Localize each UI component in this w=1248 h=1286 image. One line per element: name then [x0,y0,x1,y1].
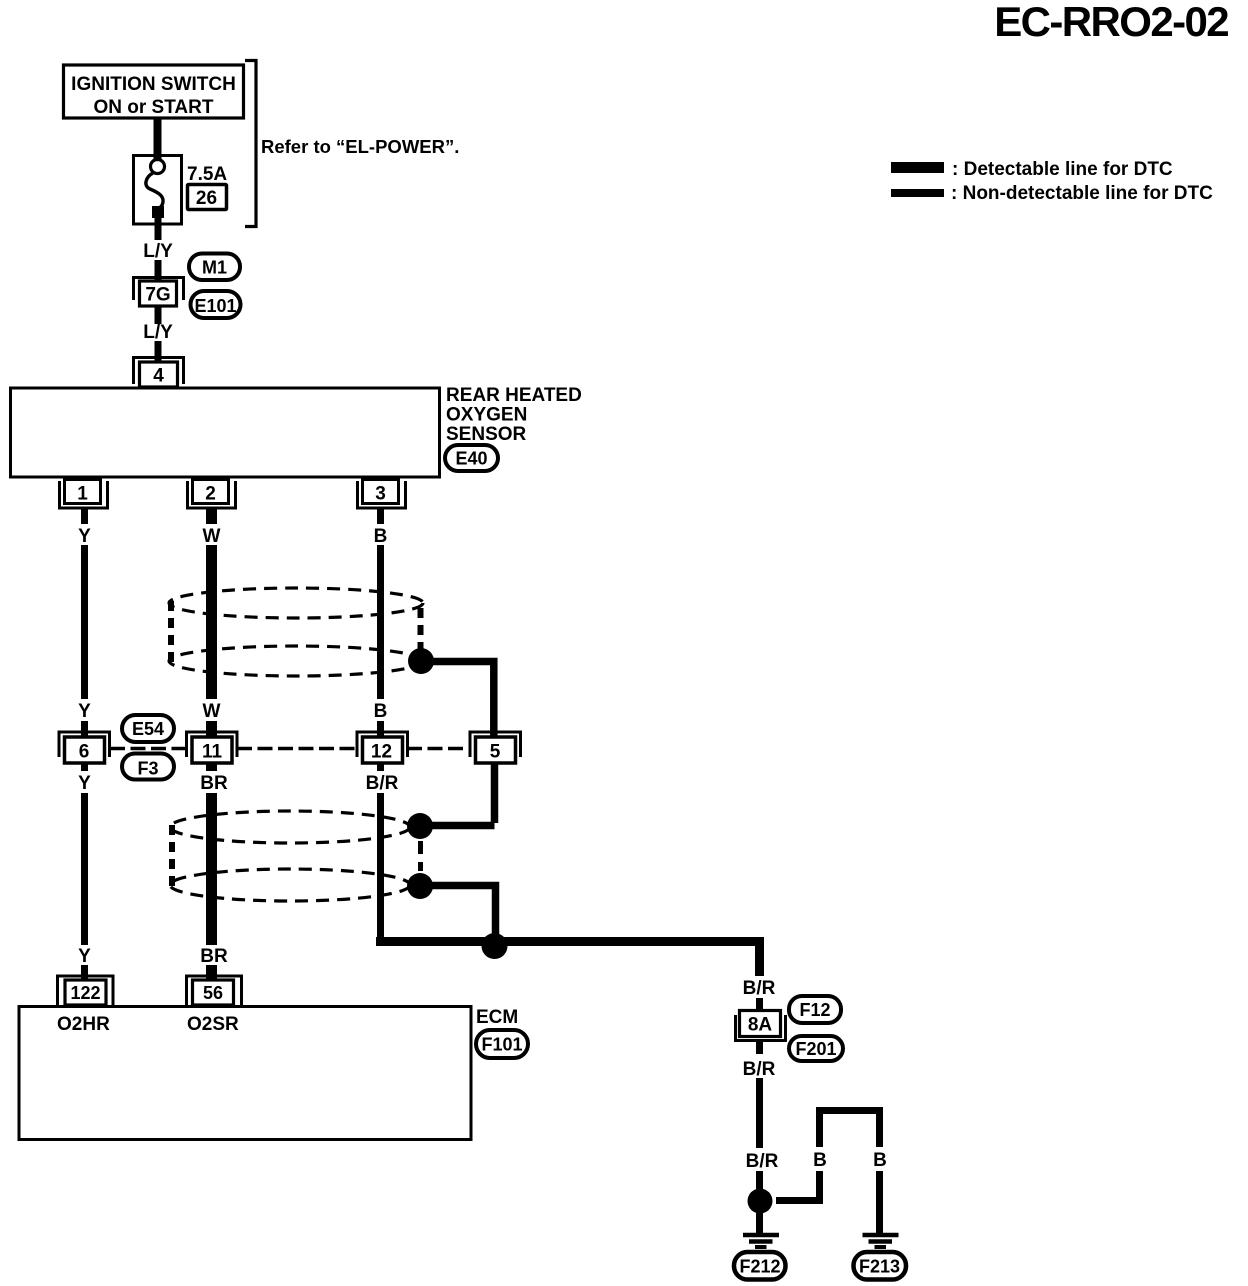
svg-text:B/R: B/R [746,1151,779,1172]
svg-text:ON or START: ON or START [94,97,214,118]
svg-text:E54: E54 [132,719,164,739]
svg-text:F12: F12 [799,1000,830,1020]
svg-text:F213: F213 [859,1257,900,1277]
svg-text:3: 3 [375,484,386,505]
svg-text:BR: BR [200,773,228,794]
svg-text:L/Y: L/Y [143,322,173,343]
svg-text:SENSOR: SENSOR [446,424,527,445]
svg-text:B: B [374,526,388,547]
svg-text:F101: F101 [481,1035,522,1055]
svg-text:E101: E101 [194,296,236,316]
svg-text:B: B [873,1150,887,1171]
svg-text:REAR HEATED: REAR HEATED [446,385,582,406]
svg-text:F212: F212 [739,1257,780,1277]
svg-text:4: 4 [153,366,164,387]
svg-text:Y: Y [78,773,91,794]
svg-text:5: 5 [490,742,501,763]
svg-text:F201: F201 [795,1039,836,1059]
svg-text:W: W [203,701,221,722]
svg-text:B/R: B/R [366,773,399,794]
svg-text:IGNITION SWITCH: IGNITION SWITCH [71,74,236,95]
svg-text:1: 1 [77,484,88,505]
svg-text:12: 12 [371,742,392,763]
svg-text:EC-RRO2-02: EC-RRO2-02 [994,0,1228,45]
svg-text:11: 11 [202,742,223,763]
svg-text:7G: 7G [145,285,170,306]
svg-text:OXYGEN: OXYGEN [446,405,527,426]
svg-text:O2HR: O2HR [57,1014,110,1035]
svg-text:E40: E40 [455,449,487,469]
svg-text:F3: F3 [137,759,158,779]
svg-text:L/Y: L/Y [143,241,173,262]
svg-text:56: 56 [203,983,223,1003]
svg-text:8A: 8A [748,1015,773,1036]
svg-text:BR: BR [200,946,228,967]
svg-text:M1: M1 [202,258,227,278]
svg-text:6: 6 [79,742,90,763]
svg-text:Y: Y [78,701,91,722]
svg-text:B: B [374,701,388,722]
svg-text:ECM: ECM [476,1007,518,1028]
svg-text:W: W [203,526,221,547]
svg-text:Refer to “EL-POWER”.: Refer to “EL-POWER”. [261,136,459,157]
svg-text:Y: Y [78,946,91,967]
svg-text:: Detectable line for DTC: : Detectable line for DTC [952,159,1173,180]
svg-text:: Non-detectable line for DTC: : Non-detectable line for DTC [951,183,1213,204]
svg-text:B: B [813,1150,827,1171]
svg-text:26: 26 [196,188,217,209]
svg-text:B/R: B/R [743,1059,776,1080]
svg-text:O2SR: O2SR [187,1014,239,1035]
svg-text:Y: Y [78,526,91,547]
svg-text:2: 2 [205,484,216,505]
svg-text:7.5A: 7.5A [187,164,227,185]
svg-text:122: 122 [70,983,100,1003]
svg-text:B/R: B/R [743,978,776,999]
